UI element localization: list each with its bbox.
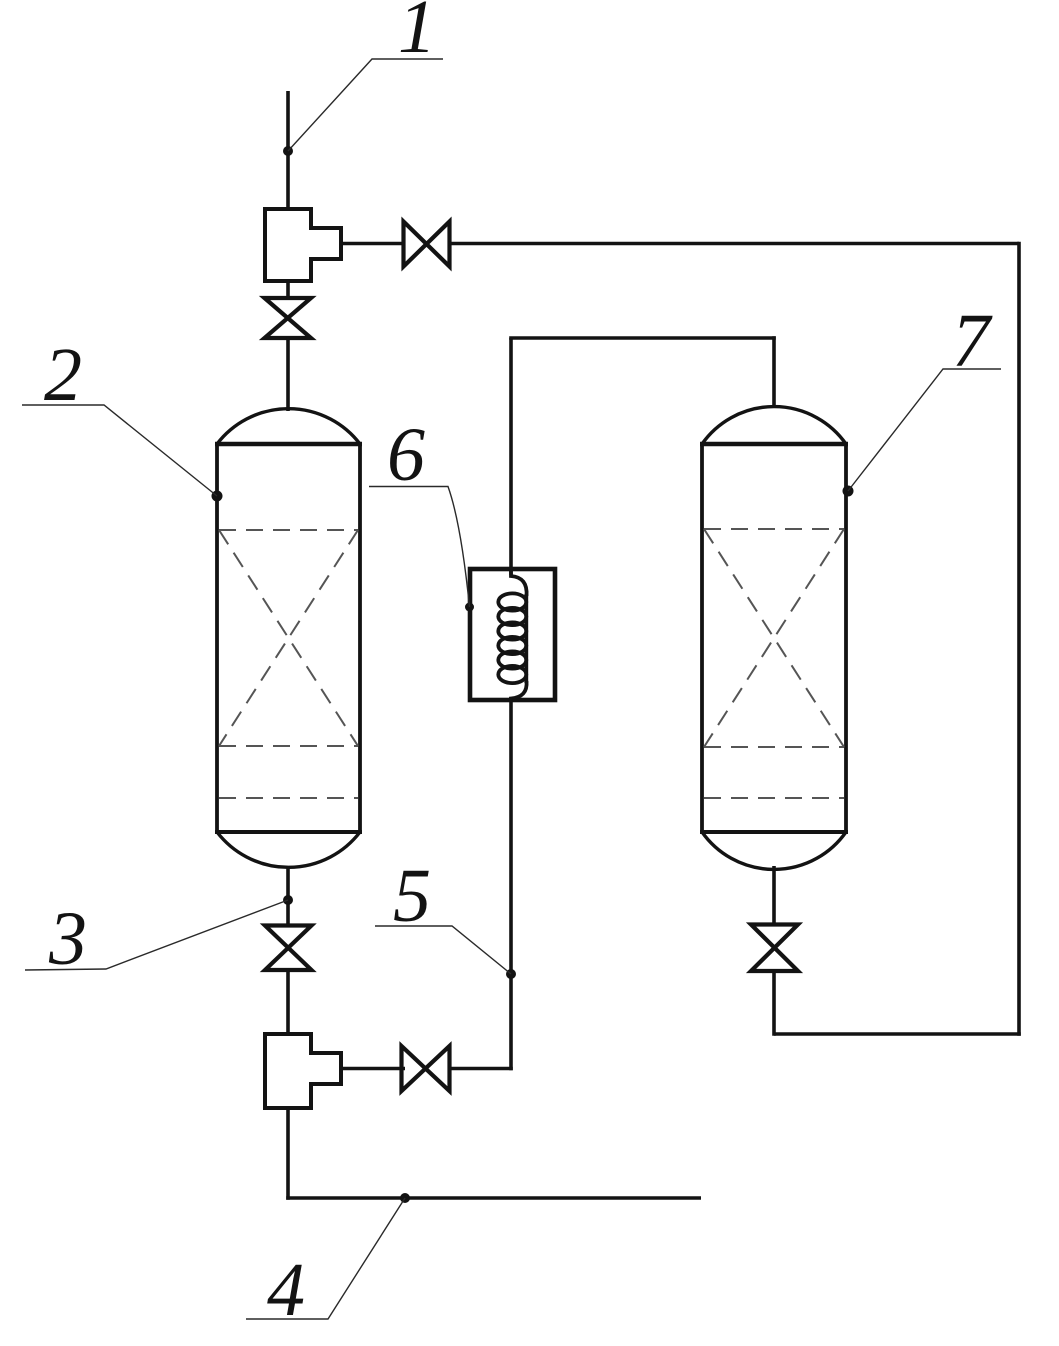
- leader line 6: [369, 487, 470, 608]
- node: junction dot for label 1: [283, 146, 293, 156]
- vessel 2 (left adsorber column): [215, 409, 362, 868]
- svg-text:7: 7: [952, 299, 993, 383]
- valve V4 (horizontal, bottom): [402, 1046, 450, 1091]
- wire: crossover from heater riser to vessel 7: [509, 336, 776, 340]
- wire: valve V5 to vessel 7 bottom: [772, 866, 776, 925]
- svg-text:3: 3: [48, 897, 87, 981]
- wire: heater downcomer to valve V4: [448, 1067, 513, 1071]
- wire: vessel 2 bottom outlet: [286, 866, 290, 926]
- valve V2 (vertical, under tee T1): [265, 298, 312, 338]
- wire: tee T2 down to product line: [286, 1108, 290, 1200]
- valve V3 (vertical, under vessel 2): [265, 926, 312, 971]
- heater U6 (furnace box): [470, 569, 555, 700]
- vessel 7 packing (dashed internals): [704, 529, 844, 798]
- svg-text:4: 4: [267, 1248, 305, 1332]
- node: junction dot for label 3: [283, 895, 293, 905]
- wire: valve V4 to tee T2: [341, 1067, 405, 1071]
- valve V5 (vertical, under vessel 7): [751, 925, 798, 972]
- tee fitting T2 (bottom): [265, 1034, 341, 1108]
- svg-text:5: 5: [393, 854, 431, 938]
- wire: bottom product line: [286, 1196, 701, 1200]
- node: junction dot for label 4: [400, 1193, 410, 1203]
- wire: tee T1 to valve V2: [286, 281, 290, 299]
- wire: right riser (recycle line): [1017, 242, 1021, 1036]
- wire: heater bottom downcomer: [509, 697, 513, 1070]
- leader line 3: [25, 900, 288, 970]
- wire: bottom of right riser to vessel 7 outlet: [774, 1032, 1021, 1036]
- node: junction dot for label 5: [506, 969, 516, 979]
- vessel 2 packing (dashed internals): [219, 530, 358, 798]
- wire: tee T1 to valve V1: [341, 242, 405, 246]
- svg-text:6: 6: [387, 413, 425, 497]
- leader line 2: [22, 405, 217, 496]
- leader line 5: [375, 926, 511, 974]
- svg-text:2: 2: [44, 333, 82, 417]
- leader line 1: [288, 59, 443, 151]
- node: junction dot for label 6 on heater wall: [465, 603, 474, 612]
- heater coil: [498, 569, 526, 701]
- wire: valve V1 to right riser: [448, 242, 1019, 246]
- wire: valve V3 to tee T2: [286, 969, 290, 1034]
- wire: vessel 7 top inlet: [772, 336, 776, 406]
- wire: top inlet pipe into tee T1: [286, 91, 290, 209]
- leader line 7: [848, 369, 1001, 491]
- node: junction dot for label 2: [212, 491, 223, 502]
- node: junction dot for label 7: [843, 486, 854, 497]
- wire: vessel 7 outlet riser: [772, 970, 776, 1036]
- leader line 4: [246, 1198, 405, 1319]
- vessel 7 (right adsorber column): [700, 407, 848, 870]
- wire: valve V2 to vessel 2 top: [286, 337, 290, 411]
- tee fitting T1 (top): [265, 209, 341, 281]
- wire: riser from heater top: [509, 338, 513, 575]
- svg-text:1: 1: [398, 0, 436, 69]
- valve V1 (horizontal, top): [404, 222, 450, 267]
